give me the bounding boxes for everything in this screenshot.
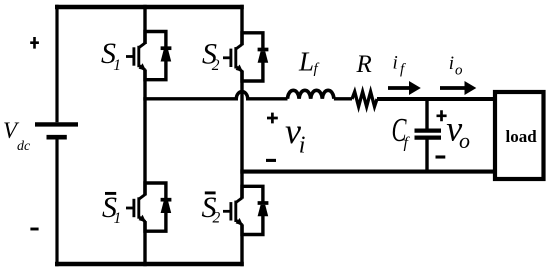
- svg-text:i: i: [449, 53, 454, 74]
- svg-text:o: o: [459, 128, 470, 153]
- svg-text:dc: dc: [17, 139, 31, 154]
- capacitor Cf upper lead: [425, 99, 428, 129]
- label − (v_i): [266, 159, 276, 162]
- label + (v_o): [437, 110, 447, 121]
- wire left leg lower: [143, 222, 146, 267]
- inductor Lf: [288, 90, 334, 99]
- transistor S1: [126, 32, 171, 80]
- capacitor Cf lower lead: [425, 138, 428, 172]
- wire bottom rail: [55, 262, 244, 267]
- svg-text:f: f: [314, 61, 320, 77]
- wire Lf to R: [334, 97, 352, 100]
- load box: [495, 92, 544, 179]
- svg-text:2: 2: [213, 210, 221, 227]
- svg-text:load: load: [506, 127, 538, 146]
- wire left leg upper: [143, 5, 146, 44]
- battery Vdc negative lead: [55, 137, 58, 266]
- current arrow i_f: [388, 86, 409, 90]
- label + (v_i): [267, 113, 278, 124]
- label − (v_o): [436, 155, 446, 158]
- wire right leg upper: [240, 5, 243, 45]
- svg-text:i: i: [393, 53, 398, 74]
- svg-text:L: L: [298, 47, 314, 77]
- overbar of S1bar: [105, 192, 116, 195]
- battery Vdc plates: [35, 122, 78, 126]
- svg-text:1: 1: [114, 210, 122, 227]
- svg-text:o: o: [455, 63, 463, 79]
- transistor S2bar: [223, 186, 268, 234]
- svg-text:f: f: [400, 62, 406, 78]
- svg-text:1: 1: [113, 57, 121, 74]
- wire left leg middle: [143, 70, 146, 196]
- capacitor Cf plates: [415, 128, 442, 132]
- overbar of S2bar: [205, 191, 216, 194]
- wire bridge output with hop over right leg: [143, 92, 287, 99]
- wire filter output: [377, 97, 494, 101]
- transistor S2: [223, 33, 268, 81]
- label − (Vdc): [30, 228, 38, 231]
- wire right leg lower: [240, 225, 243, 266]
- wire top rail: [55, 5, 244, 10]
- label + (Vdc): [30, 37, 39, 49]
- svg-text:i: i: [299, 132, 306, 158]
- wire right leg middle: [240, 71, 243, 199]
- resistor R: [352, 92, 377, 107]
- svg-text:R: R: [356, 51, 372, 78]
- wire bottom output: [240, 170, 494, 174]
- current arrow i_o: [440, 86, 465, 90]
- transistor S1bar: [126, 183, 171, 231]
- svg-text:f: f: [404, 135, 411, 152]
- svg-text:2: 2: [212, 57, 220, 74]
- battery Vdc positive lead: [55, 5, 58, 122]
